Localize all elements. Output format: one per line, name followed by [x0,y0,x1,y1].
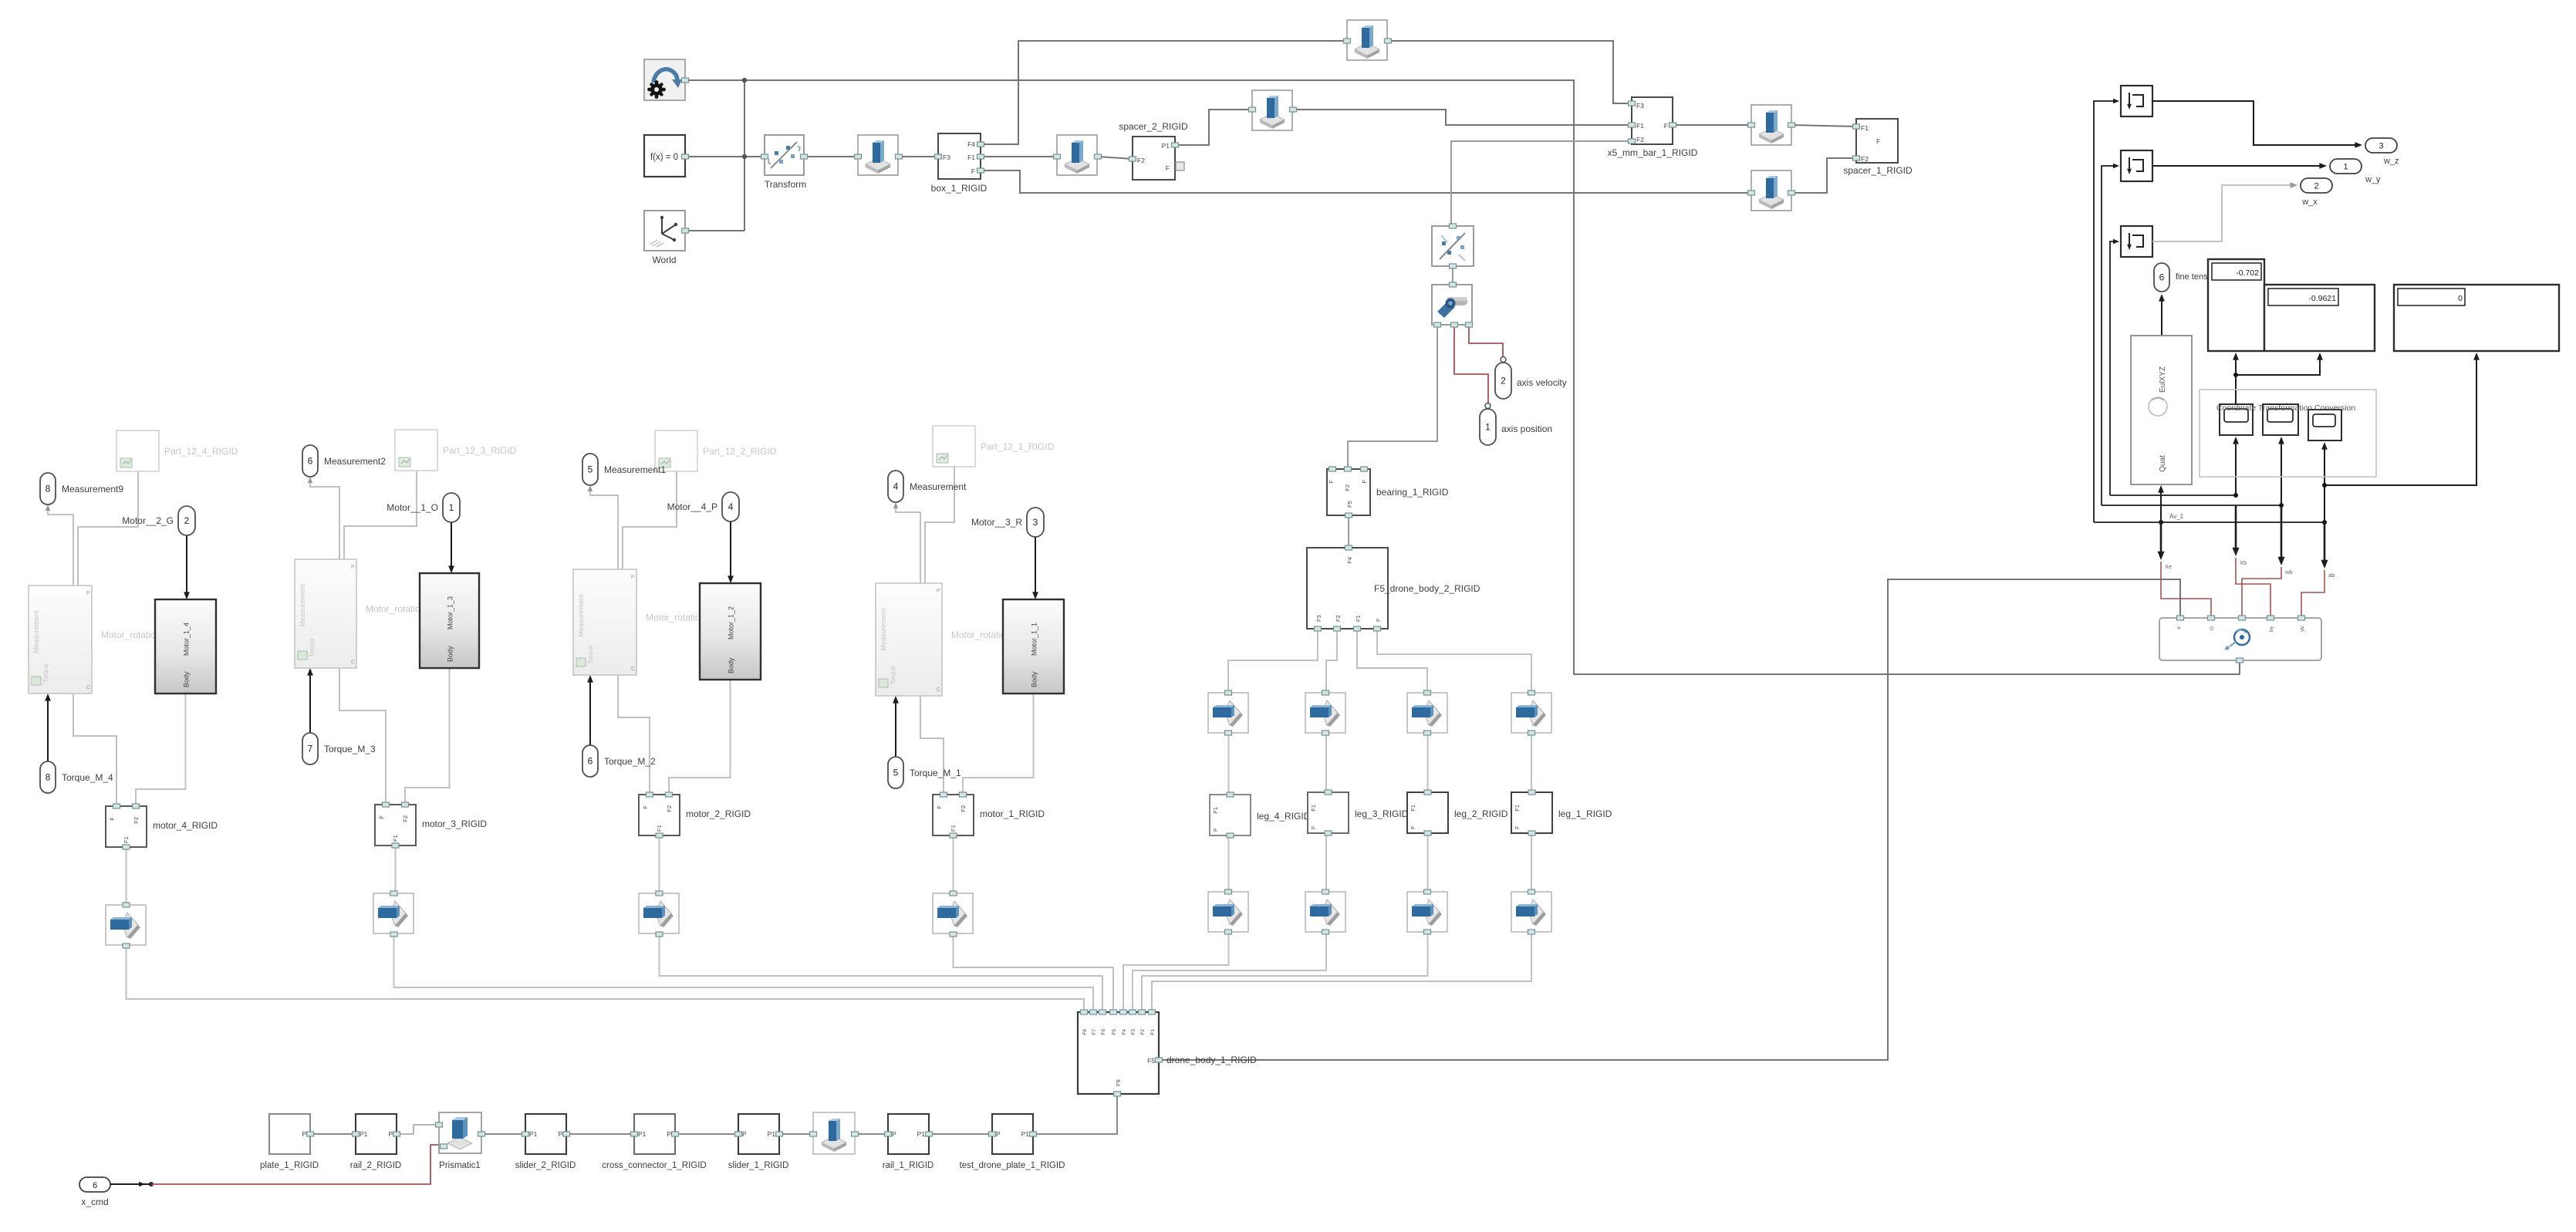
transform leg2 RigidTransform upper [1407,690,1447,735]
wire leg3 rt1 to block [1325,734,1327,792]
display conversion box2 [2263,404,2298,435]
block test_drone_plate_1_RIGID [989,1114,1037,1154]
svg-text:P: P [667,1130,671,1138]
svg-text:Xb: Xb [2240,559,2247,566]
transform RigidTransform3 [1344,20,1392,60]
label Part_12_3_RIGID label [443,445,517,456]
svg-text:3: 3 [2378,142,2383,151]
svg-text:Torque: Torque [42,663,49,683]
label F5_drone_body_2_RIGID label [1374,583,1480,594]
transform leg3 RigidTransform upper [1305,690,1345,735]
wire scope1 feeder [2094,101,2118,522]
port axis velocity outport [1495,357,1511,400]
wire box1 F4 top route [981,41,1347,144]
transform leg4 RigidTransform lower [1208,889,1248,934]
port Torque_M_3 inport [302,733,318,765]
label w_x label [2301,197,2318,207]
svg-text:motor_4_RIGID: motor_4_RIGID [153,820,218,831]
port Measurement2 outport [302,445,318,477]
wire rt6 to spacer1 F2 [1791,158,1856,193]
svg-text:F: F [1410,825,1416,829]
port outport 3 [2365,138,2397,153]
wire leg3 block to rt2 [1325,833,1327,892]
block motor_1_RIGID [933,792,974,838]
wire bar F2 to sensor [1451,141,1632,226]
svg-text:F: F [1310,825,1317,829]
wire scope3 to out2 [2152,182,2297,241]
transform RigidTransform5 [1748,105,1795,145]
label rail_2_RIGID label [350,1161,401,1170]
svg-text:F1: F1 [1310,805,1317,812]
svg-text:P: P [351,565,355,570]
label leg_2_RIGID label [1454,808,1508,819]
wire motorblock2 to rigid F2 [669,680,731,795]
block Motor body 3 [420,573,479,668]
transform leg4 RigidTransform upper [1208,690,1248,735]
wire transform3 to body1 [394,934,1094,1012]
svg-text:axis position: axis position [1501,424,1552,434]
block leg_3_RIGID [1308,790,1349,835]
arrowhead measurement4 oval [46,505,51,511]
wire leg2 rt2 to body1 [1142,933,1428,1012]
label leg_4_RIGID label [1257,811,1311,822]
transform RigidTransform motor 1 [933,891,973,937]
svg-text:4: 4 [728,501,734,512]
svg-text:Torque: Torque [309,638,316,657]
svg-text:F: F [1664,122,1668,130]
svg-text:F1: F1 [950,825,957,832]
svg-text:Measurement: Measurement [577,594,585,637]
wire Torque_M oval 3 to measurement (signal) [307,668,313,733]
svg-text:2: 2 [2314,182,2318,191]
svg-text:Part_12_2_RIGID: Part_12_2_RIGID [703,446,777,457]
svg-text:F2: F2 [133,817,140,824]
svg-text:F5: F5 [1346,501,1353,508]
svg-text:O: O [2210,626,2215,630]
svg-text:P: P [631,575,635,580]
label Torque_M_4 label [62,772,113,783]
wire world to bus [686,230,744,231]
svg-text:Measurement2: Measurement2 [324,456,386,467]
label Motor__1_O label [387,502,438,513]
svg-text:P: P [388,1130,393,1138]
svg-text:Coordinate Transformation Conv: Coordinate Transformation Conversion [2216,403,2356,413]
svg-text:0: 0 [2458,294,2463,303]
svg-text:Motor_1_4: Motor_1_4 [183,623,191,656]
svg-text:w_y: w_y [2365,175,2381,184]
svg-text:f(x) = 0: f(x) = 0 [650,153,678,162]
arrowhead measurement1 oval [893,502,899,508]
port Torque_M_4 inport [40,761,56,793]
port x_cmd inport [79,1177,110,1192]
block motor_4_RIGID [106,804,147,849]
svg-text:spacer_2_RIGID: spacer_2_RIGID [1119,121,1188,132]
label Motor__4_P label [667,501,717,512]
block Measurement subsystem 4 [29,586,92,694]
svg-text:x5_mm_bar_1_RIGID: x5_mm_bar_1_RIGID [1608,147,1698,158]
wire leg2 rt1 to block [1427,734,1429,792]
svg-text:P: P [302,1130,306,1138]
wire measurement2 out to oval [590,487,618,569]
svg-text:wb: wb [2284,569,2293,575]
svg-text:F: F [378,815,385,819]
svg-text:Body: Body [728,657,735,673]
wire red jog 3 [2242,567,2281,616]
svg-text:by: by [2269,626,2274,632]
svg-text:yb: yb [2300,626,2305,632]
wire body2 F2 to leg3 rt [1326,629,1337,693]
svg-text:F: F [1876,137,1880,145]
svg-text:EulXYZ: EulXYZ [2159,366,2167,393]
block Measurement subsystem 3 [295,559,356,668]
label motor_2_RIGID label [686,808,751,819]
svg-text:F5: F5 [1147,1057,1155,1065]
wire measblock4 to rigid F [73,694,116,806]
svg-text:P: P [742,1130,747,1138]
svg-text:motor_2_RIGID: motor_2_RIGID [686,808,751,819]
block motor_3_RIGID [375,802,416,848]
svg-text:F2: F2 [1137,157,1145,164]
node solver junction [742,78,747,83]
wire display2 feeder elbow [2233,353,2323,377]
block Motor body 4 [155,599,216,694]
wire part1 to measurement subsystem [925,467,954,583]
wire rail2 to prismatic jog [396,1125,439,1134]
svg-text:rail_1_RIGID: rail_1_RIGID [883,1161,934,1170]
svg-text:6: 6 [308,456,313,467]
node bus junction d [2159,520,2163,525]
block plate_1_RIGID [269,1114,314,1154]
wire body1 F5 output long route [1159,579,2180,1060]
block F5_drone_body_1_RIGID [1078,1010,1163,1096]
svg-text:F1: F1 [1410,805,1416,812]
wire joint to axis velocity (red) [1469,325,1503,359]
wire rigid3 to transform [395,845,397,893]
svg-text:F5: F5 [1112,1029,1117,1035]
svg-text:x_cmd: x_cmd [81,1197,108,1207]
svg-text:F2: F2 [1636,136,1644,143]
wire Torque_M oval 4 to measurement (signal) [45,694,51,761]
wire measblock3 to rigid F [339,668,386,805]
svg-text:F: F [1514,825,1521,829]
block rail_1_RIGID [885,1114,933,1154]
svg-text:w_x: w_x [2301,197,2318,207]
svg-text:P: P [892,1130,896,1138]
wire conversion box2 feeder [2278,437,2284,505]
wire scope3 feeder [2110,241,2118,495]
label motor_4_RIGID label [153,820,218,831]
block spacer_1_RIGID [1853,119,1899,163]
label Part_12_4_RIGID label [164,446,238,457]
display conversion box1 [2220,404,2253,435]
wire red jog 1 [2161,562,2211,616]
wire leg3 rt2 to body1 [1133,933,1326,1012]
wire part3 to measurement subsystem [344,471,417,559]
svg-text:8: 8 [46,484,51,494]
svg-text:Measurement: Measurement [910,481,967,492]
wire Motor_2 oval to motor block (signal) [728,521,734,583]
wire scope1 to w_z [2152,101,2362,148]
label x_cmd label [81,1197,108,1207]
block Transform Sensor [1432,224,1474,268]
svg-text:F: F [1361,480,1368,484]
block leg_1_RIGID [1511,790,1552,835]
svg-text:Motor__1_O: Motor__1_O [387,502,438,513]
label Torque_M_2 label [604,756,656,767]
svg-text:Measurement: Measurement [299,584,306,627]
transform leg3 RigidTransform lower [1305,889,1345,934]
wire plate to rail2 [310,1133,356,1135]
wire motorblock4 to rigid F2 [136,694,186,806]
svg-text:C: C [631,667,635,672]
arrowhead measurement2 oval [588,485,593,491]
block rail_2_RIGID [353,1114,400,1154]
label World [652,255,676,265]
display Display1 [2208,259,2264,351]
block Part_12_2_RIGID [655,430,697,471]
label w_z label [2383,157,2399,166]
arrowhead measurement3 oval [308,477,313,483]
wire transform1 to body1 [954,934,1114,1012]
node bus junction c [2322,520,2327,525]
wire motorblock3 to rigid F2 [405,668,450,805]
label leg_1_RIGID label [1558,808,1612,819]
wire slider2 to crossconn [566,1133,634,1135]
svg-text:leg_2_RIGID: leg_2_RIGID [1454,808,1508,819]
block Solver f(x)=0 [644,135,689,177]
wire EGXYZ quaternion input [2158,485,2164,522]
svg-text:-0.9621: -0.9621 [2308,294,2336,303]
port fine tension outport [2154,263,2169,292]
svg-text:motor_1_RIGID: motor_1_RIGID [980,808,1045,819]
wire bearing to body2 [1348,515,1349,548]
svg-text:leg_3_RIGID: leg_3_RIGID [1355,808,1409,819]
svg-text:box_1_RIGID: box_1_RIGID [931,183,988,194]
svg-text:Motor_1_2: Motor_1_2 [728,606,735,640]
wire rt4 to bar F1 [1294,110,1632,125]
wire bus y655 [2102,505,2281,506]
svg-text:e: e [2176,626,2182,630]
port Measurement outport [888,471,903,502]
wire rt3 to bar F3 [1388,41,1632,103]
wire box1 F1 to rt2 [981,156,1057,157]
block Measurement subsystem 2 [573,569,636,675]
wire scope2 to out1 [2152,163,2327,169]
label slider_1_RIGID label [728,1161,789,1170]
label tag on bus [2169,513,2184,520]
svg-text:P: P [937,589,940,594]
label spacer_2_RIGID [1119,121,1188,132]
transform RigidTransform motor 4 [106,903,146,948]
svg-text:leg_1_RIGID: leg_1_RIGID [1558,808,1612,819]
svg-text:F4: F4 [967,140,975,148]
svg-text:F1: F1 [1861,124,1869,132]
svg-text:6: 6 [2159,272,2165,283]
block leg_2_RIGID [1407,790,1448,835]
svg-text:motor_3_RIGID: motor_3_RIGID [422,819,487,829]
wire solver bus vertical [744,80,745,231]
svg-text:8: 8 [46,772,51,783]
label Part_12_1_RIGID label [981,441,1055,452]
svg-text:F: F [1375,618,1382,622]
block Part_12_3_RIGID [395,430,437,471]
svg-text:C: C [86,685,90,690]
port Motor oval 4 [178,506,195,535]
svg-text:F2: F2 [1335,615,1342,622]
svg-text:Xe: Xe [2165,563,2172,570]
wire red jog 2 [2236,558,2270,616]
block cross_connector_1_RIGID [631,1114,679,1154]
transform RigidTransform motor 3 [373,891,414,937]
svg-text:F1: F1 [1212,807,1219,814]
svg-text:Body: Body [183,671,191,687]
label Measurement9 label [62,484,123,494]
label test_drone_plate_1_RIGID label [960,1161,1065,1170]
svg-text:Transform: Transform [765,179,806,190]
wire joint to axis position (red) [1454,325,1488,405]
label plate_1_RIGID label [260,1161,319,1170]
svg-text:F: F [1328,480,1335,484]
svg-text:slider_2_RIGID: slider_2_RIGID [515,1161,576,1170]
svg-text:3: 3 [1033,517,1038,528]
svg-text:F1: F1 [1636,122,1644,130]
port Motor oval 3 [443,493,460,522]
node solver junction2 [742,154,747,159]
label Prismatic1 label [439,1161,481,1170]
svg-text:F1: F1 [123,836,130,843]
svg-text:F1: F1 [967,154,975,161]
svg-text:5: 5 [893,768,899,778]
label tiny port tag 3 [2284,569,2293,575]
block Scope3 [2121,226,2152,257]
wire Motor_4 oval to motor block (signal) [184,535,190,599]
display Display3 [2394,285,2559,351]
svg-text:World: World [652,255,676,265]
wire red jog 4 [2301,570,2324,616]
svg-text:Part_12_3_RIGID: Part_12_3_RIGID [443,445,517,456]
svg-text:Av_1: Av_1 [2169,513,2184,520]
label x5_mm_bar_1_RIGID [1608,147,1698,158]
svg-text:P1: P1 [768,1130,776,1138]
label Torque_M_1 label [910,768,961,778]
wire leg4 rt2 to body1 [1123,933,1229,1012]
wire rigid4 to transform [126,846,127,905]
block Measurement subsystem 1 [876,583,942,696]
svg-text:F5_drone_body_2_RIGID: F5_drone_body_2_RIGID [1374,583,1480,594]
svg-text:cross_connector_1_RIGID: cross_connector_1_RIGID [602,1161,707,1170]
wire rt1 to box1 [899,156,938,157]
transform leg1 RigidTransform lower [1511,889,1551,934]
svg-text:P1: P1 [529,1130,538,1138]
wire transform to rt1 [804,156,858,157]
transform leg1 RigidTransform upper [1511,690,1551,735]
svg-text:Torque: Torque [890,666,896,685]
wire Motor_3 oval to motor block (signal) [448,522,454,573]
node bus junction a [2233,493,2238,498]
svg-text:rail_2_RIGID: rail_2_RIGID [350,1161,401,1170]
svg-text:w_z: w_z [2383,157,2399,166]
wire measblock2 to rigid F [618,675,650,795]
svg-text:F3: F3 [1315,615,1322,622]
block slider_1_RIGID [735,1114,783,1154]
wire box1 F bottom route [981,170,1751,193]
label rail_1_RIGID label [883,1161,934,1170]
svg-text:F7: F7 [1092,1029,1097,1035]
label box_1_RIGID [931,183,988,194]
wire transform4 to body1 [127,946,1085,1012]
svg-text:Torque_M_3: Torque_M_3 [324,744,376,754]
block spacer_2_RIGID [1129,137,1185,180]
wire Torque_M oval 1 to measurement (signal) [893,696,899,757]
display conversion box3 [2308,410,2341,440]
svg-text:P1: P1 [917,1130,926,1138]
label motor_3_RIGID label [422,819,487,829]
wire measurement3 out to oval [310,478,339,559]
block motor_2_RIGID [639,792,680,838]
block box_1_RIGID [935,133,984,179]
svg-text:Motor__2_G: Motor__2_G [122,515,174,526]
block Mechanism Configuration [644,59,689,100]
label Part_12_2_RIGID label [703,446,777,457]
svg-text:1: 1 [1485,422,1491,433]
label Motor__2_G label [122,515,174,526]
wire body2 F to leg1 rt [1377,629,1531,693]
svg-text:-0.702: -0.702 [2236,268,2259,278]
block bearing_1_RIGID [1327,467,1370,518]
wire leg1 rt1 to block [1531,734,1532,792]
port axis position outport [1480,403,1496,446]
label Motor__3_R label [971,517,1022,528]
svg-text:Motor__4_P: Motor__4_P [667,501,717,512]
svg-text:F8: F8 [1082,1029,1088,1035]
block F5_drone_body_2_RIGID [1307,545,1388,631]
svg-text:F4: F4 [1122,1029,1127,1035]
wire x_cmd black segment [110,1182,154,1187]
label drone_body_1 label [1166,1055,1257,1065]
label Measurement2 label [324,456,386,467]
svg-text:F3: F3 [943,154,950,161]
label spacer_1_RIGID [1843,165,1913,176]
wire rt5 to spacer1 F1 [1791,125,1856,127]
label Measurement label [910,481,967,492]
svg-text:F: F [936,805,943,809]
wire scope2 feeder [2102,166,2118,505]
wire bus y642 [2110,494,2236,496]
svg-text:F2: F2 [1344,484,1351,491]
svg-text:P: P [86,591,90,596]
port Motor oval 2 [722,492,739,521]
svg-text:6: 6 [93,1181,97,1190]
label tiny port tag 2 [2240,559,2247,566]
wire Motor_1 oval to motor block (signal) [1032,537,1038,599]
svg-text:Prismatic1: Prismatic1 [439,1161,481,1170]
svg-text:P: P [996,1130,1001,1138]
svg-text:F: F [1166,164,1170,172]
label leg_3_RIGID label [1355,808,1409,819]
block x5_mm_bar_1_RIGID [1629,97,1676,144]
transform RigidTransform4 [1249,90,1297,130]
svg-text:F4: F4 [1346,557,1353,564]
transform RigidTransform motor 2 [639,891,679,937]
label Motor_rotation1 label [951,630,1016,640]
svg-text:Body: Body [447,646,454,662]
svg-text:7: 7 [308,744,313,754]
transform RigidTransform6 [1748,170,1795,211]
svg-text:Part_12_1_RIGID: Part_12_1_RIGID [981,441,1055,452]
wire motorblock1 to rigid F2 [963,694,1034,795]
svg-text:F2: F2 [402,815,409,822]
wire subsystem port arrow 4 [2321,522,2328,569]
